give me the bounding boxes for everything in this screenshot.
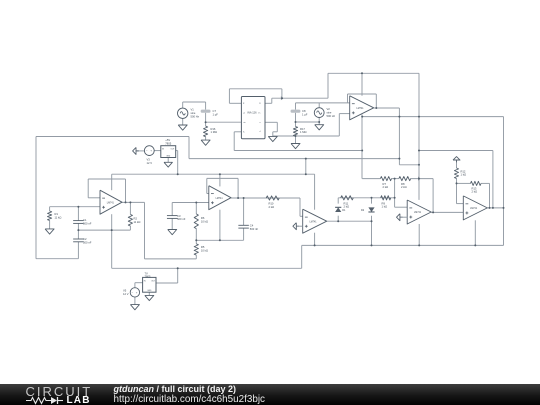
svg-text:R12: R12 [461,169,466,173]
svg-text:LM741: LM741 [357,108,365,110]
svg-text:1 kΩ: 1 kΩ [382,205,388,209]
svg-text:C3: C3 [177,214,181,218]
svg-text:LM741: LM741 [107,202,115,204]
svg-text:LM741: LM741 [470,208,478,210]
svg-text:R13: R13 [472,186,477,190]
svg-text:+: + [150,149,152,153]
svg-text:2 kΩ: 2 kΩ [472,190,478,194]
svg-text:7805: 7805 [165,142,171,146]
svg-text:sine: sine [191,111,196,115]
svg-text:500 Hz: 500 Hz [327,114,336,118]
svg-text:INA 126: INA 126 [247,110,257,114]
svg-text:-in: -in [243,112,245,114]
svg-text:R17: R17 [300,127,305,131]
svg-text:IN: IN [162,149,164,151]
svg-text:V1: V1 [191,108,195,112]
svg-text:12 V: 12 V [123,292,129,296]
svg-text:R5: R5 [201,245,205,249]
svg-text:1 MΩ: 1 MΩ [211,130,218,134]
svg-text:R: R [243,103,245,105]
svg-text:R8: R8 [401,182,405,186]
svg-text:D2: D2 [361,209,365,212]
svg-text:C8: C8 [302,109,306,113]
svg-text:2 kΩ: 2 kΩ [401,185,407,189]
svg-text:IN: IN [144,281,146,283]
svg-text:R16: R16 [211,127,216,131]
svg-text:V3: V3 [147,158,151,162]
svg-text:D1: D1 [342,209,346,212]
svg-text:R2: R2 [134,217,138,221]
svg-text:7805: 7805 [145,275,151,279]
svg-text:sine: sine [327,110,332,114]
svg-text:V+: V+ [258,112,260,114]
svg-text:11 kΩ: 11 kΩ [55,215,62,219]
svg-text:R9: R9 [382,201,386,205]
svg-text:R10: R10 [269,202,274,206]
svg-text:1 µF: 1 µF [213,112,219,116]
svg-text:C7: C7 [213,109,217,113]
svg-text:V5: V5 [123,289,127,293]
svg-text:V2: V2 [327,107,331,111]
svg-text:1 kΩ: 1 kΩ [461,173,467,177]
svg-text:C2: C2 [83,237,87,241]
svg-text:+: + [136,291,138,295]
svg-text:+in: +in [243,122,245,124]
svg-text:10 kΩ: 10 kΩ [201,249,208,253]
svg-text:R11: R11 [344,201,349,205]
svg-text:500 nF: 500 nF [83,240,92,244]
svg-text:7V: 7V [145,271,148,275]
svg-text:GND: GND [147,290,152,292]
svg-text:o: o [260,122,261,124]
svg-text:LM741: LM741 [216,198,224,200]
svg-text:2 kΩ: 2 kΩ [269,205,275,209]
svg-text:1 MΩ: 1 MΩ [300,130,307,134]
svg-text:rf: rf [259,131,261,133]
svg-text:R1: R1 [55,212,59,216]
svg-text:10 kΩ: 10 kΩ [201,219,208,223]
svg-text:R: R [259,103,261,105]
svg-text:C4: C4 [250,224,254,228]
svg-text:C1: C1 [83,218,87,222]
svg-text:−: − [146,149,148,153]
svg-text:−: − [132,291,134,295]
svg-text:V-: V- [243,132,245,134]
svg-text:12 V: 12 V [147,161,153,165]
svg-text:OUT: OUT [171,149,176,151]
svg-text:500 nF: 500 nF [83,221,92,225]
svg-text:2 kΩ: 2 kΩ [383,185,389,189]
svg-text:11 kΩ: 11 kΩ [134,220,141,224]
svg-text:500 nF: 500 nF [177,217,186,221]
svg-text:+5V: +5V [165,138,170,142]
svg-text:GND: GND [166,155,171,157]
svg-text:LM741: LM741 [310,221,318,223]
svg-text:LM741: LM741 [414,212,422,214]
svg-text:500 nF: 500 nF [250,227,259,231]
svg-text:500 Hz: 500 Hz [191,114,200,118]
svg-text:R7: R7 [383,182,387,186]
svg-text:R6: R6 [201,216,205,220]
svg-text:1 µF: 1 µF [302,112,308,116]
svg-text:OUT: OUT [151,281,156,283]
